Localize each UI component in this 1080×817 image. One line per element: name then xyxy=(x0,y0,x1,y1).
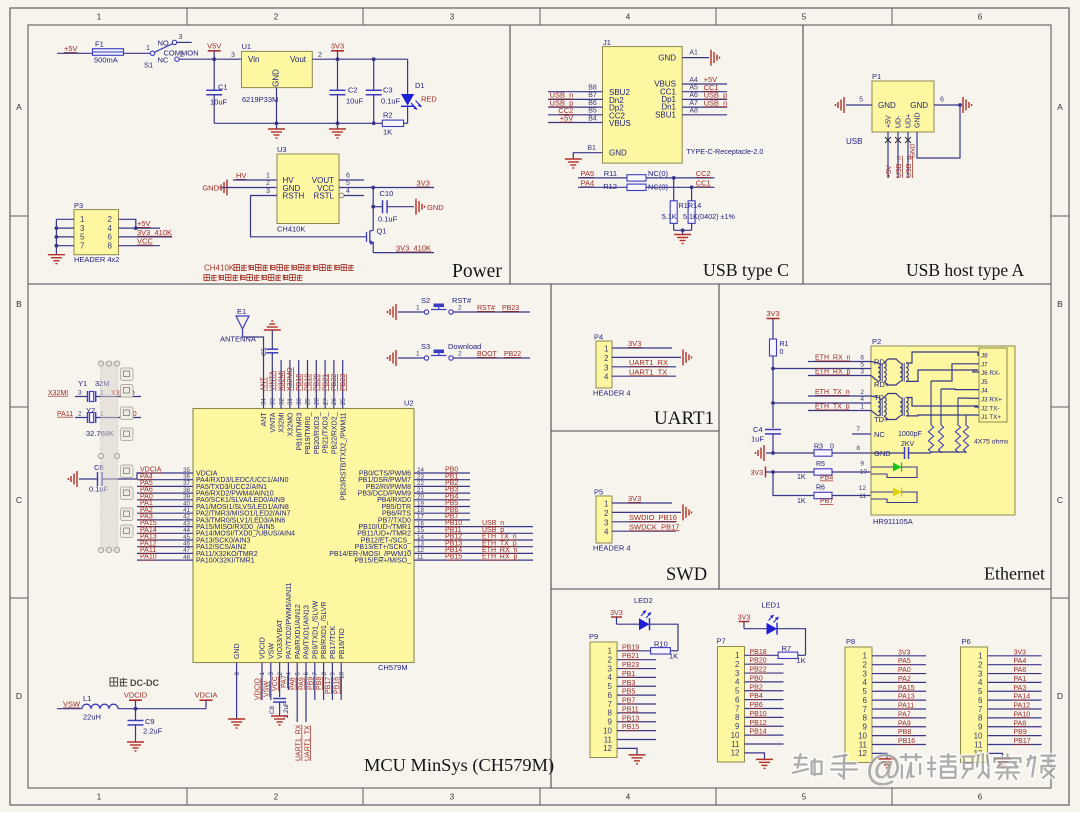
svg-text:PB14: PB14 xyxy=(750,729,767,736)
wire pin 6 xyxy=(934,97,962,107)
svg-text:U2: U2 xyxy=(404,399,414,408)
svg-text:A5: A5 xyxy=(689,85,698,92)
resistor R12 xyxy=(603,182,668,192)
wire pin 7 NC xyxy=(852,426,871,434)
transistor Q1 xyxy=(362,207,387,253)
pin 20 PB4 xyxy=(377,493,470,504)
svg-text:UART1_TX: UART1_TX xyxy=(304,725,311,761)
svg-text:10uF: 10uF xyxy=(346,97,364,106)
svg-text:8: 8 xyxy=(978,714,983,723)
svg-text:PB0: PB0 xyxy=(750,675,763,682)
wire gnd row xyxy=(766,451,814,455)
wire pin11 xyxy=(745,743,784,745)
svg-text:PB16: PB16 xyxy=(898,738,915,745)
svg-text:A7: A7 xyxy=(689,100,698,107)
wire pin B8 xyxy=(548,85,603,92)
wire PB6 xyxy=(745,702,784,709)
svg-text:28: 28 xyxy=(314,398,321,405)
svg-text:2: 2 xyxy=(608,655,613,664)
svg-text:R14: R14 xyxy=(688,201,701,210)
svg-text:X32MI: X32MI xyxy=(48,390,68,397)
svg-text:X32MI: X32MI xyxy=(279,412,286,432)
wire gnd xyxy=(612,511,681,513)
svg-text:1: 1 xyxy=(97,793,102,802)
svg-text:PB12: PB12 xyxy=(750,720,767,727)
svg-text:SWD: SWD xyxy=(666,565,707,585)
svg-text:PA11: PA11 xyxy=(898,703,914,710)
wire PB8 xyxy=(872,729,926,736)
svg-text:P6: P6 xyxy=(962,637,971,646)
svg-text:VBUS: VBUS xyxy=(609,119,631,128)
svg-text:2: 2 xyxy=(277,671,284,675)
wire B1 GND xyxy=(573,145,602,159)
svg-text:8: 8 xyxy=(863,714,868,723)
svg-text:6: 6 xyxy=(978,13,983,22)
svg-text:3V3: 3V3 xyxy=(331,41,344,50)
svg-text:PA8/RXD1/AIN12: PA8/RXD1/AIN12 xyxy=(295,604,302,659)
svg-text:GND: GND xyxy=(234,643,241,659)
ground xyxy=(388,304,397,320)
svg-text:5: 5 xyxy=(802,793,807,802)
pin 45 PA13 xyxy=(137,534,250,545)
wire xyxy=(650,624,679,651)
pin PB8/RXD1_/SLVR bottom xyxy=(321,602,328,676)
svg-text:7: 7 xyxy=(856,426,860,433)
svg-text:CC1: CC1 xyxy=(696,178,711,187)
svg-text:GND: GND xyxy=(915,112,922,128)
net label 3V3 xyxy=(417,179,430,188)
ground xyxy=(565,159,582,168)
svg-text:PB9: PB9 xyxy=(1014,729,1027,736)
svg-text:R12: R12 xyxy=(603,182,617,191)
transformer T2 TX xyxy=(871,394,978,420)
svg-text:ETH_TX_n: ETH_TX_n xyxy=(815,389,850,396)
svg-text:3: 3 xyxy=(450,13,455,22)
svg-text:0: 0 xyxy=(830,444,834,451)
capacitor C3 xyxy=(366,59,401,123)
svg-text:J8: J8 xyxy=(981,353,988,360)
svg-text:J1: J1 xyxy=(603,38,611,47)
svg-text:GND: GND xyxy=(272,69,281,87)
ground GND left xyxy=(202,180,277,196)
pin 36 PA4 xyxy=(137,473,289,484)
net label +5V xyxy=(64,44,78,53)
svg-text:2: 2 xyxy=(604,509,609,518)
svg-text:1: 1 xyxy=(416,351,420,358)
svg-text:Ethernet: Ethernet xyxy=(984,564,1045,584)
svg-text:PA9/TXD1/AIN13: PA9/TXD1/AIN13 xyxy=(304,605,311,659)
power net VDCIA xyxy=(195,691,218,709)
section title Power xyxy=(452,261,502,282)
ground xyxy=(69,471,78,487)
ground GND right xyxy=(416,199,444,215)
wire VCC to 3V3 xyxy=(339,186,434,190)
svg-text:PB1: PB1 xyxy=(622,671,635,678)
resistor R2 xyxy=(382,111,403,137)
svg-text:PB20: PB20 xyxy=(750,658,767,665)
svg-text:6: 6 xyxy=(978,793,983,802)
svg-text:TD+: TD+ xyxy=(874,415,889,424)
net label VCC xyxy=(119,237,161,246)
wire PB2 xyxy=(745,684,784,691)
svg-text:ETH_RX_n: ETH_RX_n xyxy=(815,355,851,362)
wire PA14 xyxy=(988,694,1042,701)
wire VSW xyxy=(263,663,271,701)
svg-text:1: 1 xyxy=(735,651,740,660)
svg-text:E1: E1 xyxy=(237,307,246,316)
svg-text:HEADER 4: HEADER 4 xyxy=(593,544,631,553)
svg-text:C: C xyxy=(16,495,22,505)
pin PA8/RXD1/AIN12 bottom xyxy=(294,604,301,675)
svg-text:UART1: UART1 xyxy=(654,408,714,429)
inductor L1 xyxy=(57,694,118,722)
wire PA8 xyxy=(988,720,1042,727)
svg-text:PB22: PB22 xyxy=(750,667,767,674)
pin 47 PA11 xyxy=(137,547,258,558)
wire pin1 xyxy=(617,644,651,651)
wire SWDCK xyxy=(612,522,679,531)
svg-text:PB20: PB20 xyxy=(314,374,321,391)
svg-text:PB23: PB23 xyxy=(340,374,347,391)
svg-text:4: 4 xyxy=(604,528,609,537)
svg-text:7: 7 xyxy=(80,242,85,251)
svg-text:PB9: PB9 xyxy=(307,677,314,690)
svg-text:11: 11 xyxy=(604,735,613,744)
svg-text:J4: J4 xyxy=(981,388,988,395)
svg-text:PB19/TMR0_: PB19/TMR0_ xyxy=(305,412,312,454)
section title Ethernet xyxy=(984,564,1045,584)
svg-text:3: 3 xyxy=(266,188,270,195)
svg-text:+5V: +5V xyxy=(886,115,893,128)
switch S1 xyxy=(144,34,199,70)
wire xyxy=(578,177,627,179)
svg-text:2: 2 xyxy=(458,351,462,358)
svg-text:P8: P8 xyxy=(846,637,855,646)
svg-text:4: 4 xyxy=(626,793,631,802)
svg-text:5: 5 xyxy=(978,687,983,696)
svg-text:6: 6 xyxy=(346,173,350,180)
wire 3V3 xyxy=(988,649,1042,656)
svg-text:6: 6 xyxy=(860,355,864,362)
svg-text:10uF: 10uF xyxy=(210,98,228,107)
svg-text:LED2: LED2 xyxy=(634,596,653,605)
svg-text:1K: 1K xyxy=(669,652,678,661)
svg-text:C1: C1 xyxy=(218,83,228,92)
svg-text:3V3: 3V3 xyxy=(417,179,430,188)
wires to jack xyxy=(931,352,979,416)
ground xyxy=(629,755,646,764)
svg-text:HEADER 4: HEADER 4 xyxy=(593,389,631,398)
svg-text:8: 8 xyxy=(735,713,740,722)
svg-text:C5: C5 xyxy=(261,347,268,356)
wire pin 8 GND xyxy=(856,445,860,452)
wire PB9 xyxy=(307,663,315,701)
svg-text:2: 2 xyxy=(274,13,279,22)
capacitor C4 xyxy=(751,425,781,453)
wire pin2 to +5V xyxy=(119,219,138,230)
svg-text:6: 6 xyxy=(940,97,944,104)
svg-text:PB23: PB23 xyxy=(502,305,519,312)
svg-text:10: 10 xyxy=(858,731,867,740)
svg-text:VSW: VSW xyxy=(63,700,81,709)
svg-text:5: 5 xyxy=(863,687,868,696)
ground xyxy=(228,719,245,728)
svg-text:11: 11 xyxy=(974,740,983,749)
svg-text:PA8: PA8 xyxy=(290,677,297,690)
wire source to 3V3_410K xyxy=(373,252,434,254)
svg-text:1: 1 xyxy=(604,500,609,509)
svg-text:PA11: PA11 xyxy=(57,411,73,418)
power net 3V3 (P7 block) xyxy=(738,614,751,628)
svg-text:3: 3 xyxy=(231,52,235,59)
svg-text:PB8/RXD1_/SLVR: PB8/RXD1_/SLVR xyxy=(321,602,328,659)
svg-text:1uF: 1uF xyxy=(751,435,764,444)
wire PA0 xyxy=(872,667,926,674)
svg-text:PB15: PB15 xyxy=(622,724,639,731)
svg-text:22uH: 22uH xyxy=(83,713,101,722)
svg-text:29: 29 xyxy=(305,398,312,405)
wire A1 GND xyxy=(682,50,709,58)
svg-text:PB20/RXD3_: PB20/RXD3_ xyxy=(314,412,321,454)
wire GND pin xyxy=(236,663,238,720)
svg-text:RED: RED xyxy=(421,95,437,104)
svg-text:R3: R3 xyxy=(814,444,823,451)
svg-text:3V3: 3V3 xyxy=(751,470,764,477)
svg-text:PA10: PA10 xyxy=(1014,711,1031,718)
transformer T1 RX xyxy=(871,352,978,385)
svg-text:3V3: 3V3 xyxy=(738,614,751,621)
resistor R10 xyxy=(651,640,679,661)
svg-text:L1: L1 xyxy=(83,694,91,703)
svg-text:A6: A6 xyxy=(689,92,698,99)
wire PA9 UART1_TX xyxy=(299,663,312,762)
svg-text:X32MO: X32MO xyxy=(288,412,295,436)
svg-text:CH579M: CH579M xyxy=(378,663,408,672)
power net 3V3 xyxy=(766,309,779,327)
svg-text:2: 2 xyxy=(266,180,270,187)
svg-text:3: 3 xyxy=(604,363,609,372)
wire xyxy=(124,52,151,54)
wire pin A8 xyxy=(682,108,727,115)
svg-text:VDCID: VDCID xyxy=(255,678,262,700)
pin 17 PB7 xyxy=(378,514,470,525)
svg-text:5: 5 xyxy=(346,180,350,187)
svg-text:P7: P7 xyxy=(717,637,726,646)
net label HV xyxy=(236,171,246,180)
LED D1 xyxy=(401,59,437,123)
svg-text:1: 1 xyxy=(80,215,85,224)
svg-text:C2: C2 xyxy=(348,86,358,95)
label USB xyxy=(846,137,862,146)
svg-text:UD+: UD+ xyxy=(906,114,913,128)
svg-text:J3 RX+: J3 RX+ xyxy=(981,397,1002,404)
pin 29 PB19 xyxy=(305,360,312,455)
wire VOUT stub xyxy=(339,179,364,181)
svg-text:9: 9 xyxy=(978,723,983,732)
svg-text:RST#: RST# xyxy=(452,296,472,305)
svg-text:4: 4 xyxy=(108,224,113,233)
svg-text:3: 3 xyxy=(268,671,275,675)
wire pin B6 xyxy=(548,98,603,107)
svg-text:PB22: PB22 xyxy=(331,374,338,391)
svg-text:31: 31 xyxy=(287,398,294,405)
svg-text:1K: 1K xyxy=(383,128,392,137)
capacitor C8 xyxy=(269,699,290,719)
svg-text:6: 6 xyxy=(978,696,983,705)
pin 25 PB23 xyxy=(340,360,347,500)
svg-text:GND: GND xyxy=(658,53,676,62)
svg-text:12: 12 xyxy=(603,744,612,753)
pin PB9/TXD1_/SLVW bottom xyxy=(312,600,319,675)
svg-text:SWDCK_PB17: SWDCK_PB17 xyxy=(629,522,679,531)
wire PB3 xyxy=(617,680,656,687)
svg-text:PB19: PB19 xyxy=(622,644,639,651)
pin PA9/TXD1/AIN13 bottom xyxy=(303,605,310,676)
svg-text:3: 3 xyxy=(604,518,609,527)
svg-text:+5V: +5V xyxy=(560,114,574,123)
svg-text:3: 3 xyxy=(608,664,613,673)
wire PA9 xyxy=(872,720,926,727)
svg-text:26: 26 xyxy=(331,398,338,405)
svg-text:7: 7 xyxy=(735,704,740,713)
svg-text:PA9: PA9 xyxy=(898,720,911,727)
svg-text:USB_n: USB_n xyxy=(896,156,903,178)
svg-text:3: 3 xyxy=(978,669,983,678)
pin 48 PA10 xyxy=(137,554,255,565)
no-connect marks xyxy=(885,137,911,143)
svg-text:SBU1: SBU1 xyxy=(655,110,676,119)
capacitor C10 xyxy=(371,188,414,224)
svg-text:HEADER 4x2: HEADER 4x2 xyxy=(74,255,119,264)
svg-text:3V3: 3V3 xyxy=(628,494,641,503)
svg-text:PB3: PB3 xyxy=(622,680,635,687)
wire pin12 gnd xyxy=(988,753,1003,759)
svg-text:+5V: +5V xyxy=(886,165,893,178)
svg-text:PA5: PA5 xyxy=(898,658,911,665)
svg-text:P1: P1 xyxy=(872,72,881,81)
svg-text:CH410K: CH410K xyxy=(277,225,305,234)
svg-text:3V3: 3V3 xyxy=(766,309,779,318)
net label +5V rotated xyxy=(886,165,893,178)
connector J1 xyxy=(603,38,683,163)
svg-text:4: 4 xyxy=(863,678,868,687)
svg-text:5: 5 xyxy=(294,671,301,675)
svg-text:6: 6 xyxy=(863,696,868,705)
wire 3V3 rail xyxy=(312,57,407,61)
svg-text:Y1: Y1 xyxy=(78,379,87,388)
wire SWDIO xyxy=(612,513,677,522)
net label USB_n rotated xyxy=(896,156,903,178)
svg-text:VINTA: VINTA xyxy=(270,371,277,391)
pin 37 PA5 xyxy=(137,480,267,491)
svg-text:PB23/RSTB/TXD2_/PWM11: PB23/RSTB/TXD2_/PWM11 xyxy=(340,412,347,500)
svg-text:PB21: PB21 xyxy=(322,374,329,391)
wire pin A7 xyxy=(682,98,727,107)
svg-text:GND: GND xyxy=(609,149,627,158)
wire ETH_TX_n pin 2 xyxy=(808,389,871,396)
svg-text:5: 5 xyxy=(735,687,740,696)
svg-text:PB17: PB17 xyxy=(325,677,332,694)
svg-text:3V3_410K: 3V3_410K xyxy=(137,228,172,237)
svg-text:PA6: PA6 xyxy=(1014,667,1027,674)
net label PA5 xyxy=(581,169,595,178)
svg-text:VCC: VCC xyxy=(137,237,153,246)
svg-text:S1: S1 xyxy=(144,61,153,70)
ground xyxy=(683,349,692,365)
svg-text:R11: R11 xyxy=(604,169,617,178)
svg-text:PA9: PA9 xyxy=(299,677,306,690)
svg-text:C9: C9 xyxy=(145,717,155,726)
ground xyxy=(674,235,691,244)
svg-text:Vin: Vin xyxy=(248,55,259,64)
svg-text:Q1: Q1 xyxy=(377,227,387,236)
svg-text:USB host type A: USB host type A xyxy=(906,260,1025,280)
svg-text:J6 RX-: J6 RX- xyxy=(981,370,1000,377)
svg-text:1: 1 xyxy=(860,404,864,411)
svg-text:PB7: PB7 xyxy=(622,698,635,705)
svg-text:2: 2 xyxy=(78,411,82,418)
ground xyxy=(994,759,1011,768)
svg-text:9: 9 xyxy=(863,723,868,732)
svg-text:B: B xyxy=(1057,299,1063,309)
svg-text:1: 1 xyxy=(97,13,102,22)
svg-text:4: 4 xyxy=(860,396,864,403)
ground xyxy=(879,759,896,768)
svg-text:+5V: +5V xyxy=(64,44,78,53)
wire xyxy=(118,707,206,711)
svg-text:PA10/X32KI/TMR1: PA10/X32KI/TMR1 xyxy=(196,558,255,565)
svg-text:3: 3 xyxy=(179,34,183,41)
pin 32 X32MI xyxy=(278,360,285,433)
svg-text:A: A xyxy=(1057,102,1063,112)
pin 30 PB18 xyxy=(296,360,303,451)
svg-text:PB17: PB17 xyxy=(1014,738,1031,745)
svg-text:3: 3 xyxy=(450,793,455,802)
section title UART1 xyxy=(654,408,714,429)
svg-text:4: 4 xyxy=(978,678,983,687)
wire VDCID xyxy=(255,663,263,701)
ground xyxy=(264,321,281,330)
capacitor C9 xyxy=(128,709,163,742)
svg-text:9: 9 xyxy=(330,671,337,675)
svg-text:TYPE-C-Receptacle-2.0: TYPE-C-Receptacle-2.0 xyxy=(686,147,763,156)
svg-text:2: 2 xyxy=(274,793,279,802)
svg-text:GND: GND xyxy=(910,101,928,110)
net label X32MI xyxy=(48,390,68,397)
svg-text:PB15: PB15 xyxy=(445,554,462,561)
svg-text:HV: HV xyxy=(236,171,246,180)
svg-text:CC2: CC2 xyxy=(696,169,711,178)
resistor R7 xyxy=(778,644,806,665)
svg-text:F1: F1 xyxy=(95,40,104,49)
svg-text:Vout: Vout xyxy=(290,55,307,64)
header P8 xyxy=(845,637,872,763)
svg-text:4: 4 xyxy=(735,678,740,687)
wire PA10 xyxy=(988,711,1042,718)
svg-text:@: @ xyxy=(866,747,901,788)
svg-text:1K: 1K xyxy=(797,498,806,505)
svg-text:PA14: PA14 xyxy=(1014,694,1031,701)
capacitor 1000pF 2KV xyxy=(871,431,966,459)
svg-text:10: 10 xyxy=(603,726,612,735)
svg-text:ETH_RX_p: ETH_RX_p xyxy=(815,369,851,376)
wire PB16 xyxy=(872,738,926,745)
svg-text:8: 8 xyxy=(108,242,113,251)
svg-text:34: 34 xyxy=(261,398,268,405)
svg-text:VDCID: VDCID xyxy=(124,691,148,700)
svg-text:B1: B1 xyxy=(587,145,596,152)
svg-text:1: 1 xyxy=(604,345,609,354)
